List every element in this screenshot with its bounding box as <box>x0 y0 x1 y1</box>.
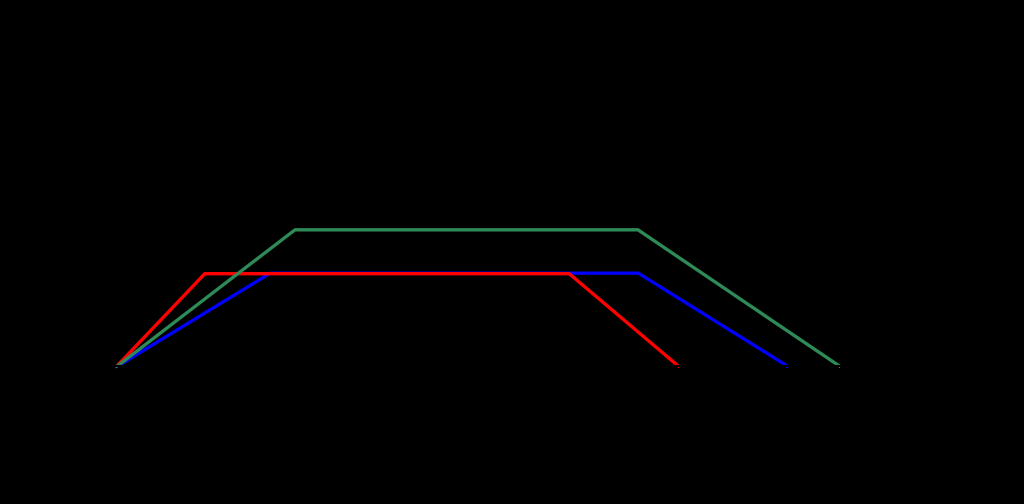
blue profile line <box>116 273 793 369</box>
red line end dot <box>678 367 679 368</box>
x-axis spine band (black, occludes line feet) <box>60 365 960 372</box>
green profile line <box>116 230 845 370</box>
origin tip dash (blue under green) <box>115 367 118 368</box>
red profile line <box>116 274 683 370</box>
blue line end dot <box>786 367 788 368</box>
green line end dot <box>839 367 840 368</box>
